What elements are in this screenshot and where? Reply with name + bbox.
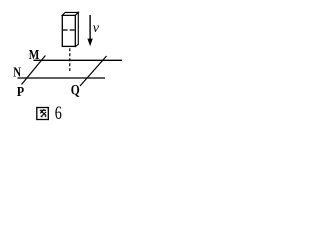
svg-text:v: v: [93, 21, 100, 36]
plane top edge (MQ back edge): [34, 59, 123, 61]
bar magnet front face: [62, 15, 75, 46]
bar magnet right side face: [75, 12, 78, 46]
svg-text:Q: Q: [71, 83, 80, 99]
caption character tu (figure) outer box: [37, 108, 49, 120]
plane right slanted edge: [80, 56, 107, 86]
svg-text:6: 6: [55, 104, 62, 124]
svg-text:N: N: [13, 66, 21, 81]
svg-text:M: M: [29, 48, 40, 63]
bar magnet top face: [62, 12, 78, 15]
plane bottom edge (NP front edge): [18, 77, 106, 79]
velocity arrow head: [87, 39, 92, 47]
magnet pole divider dashed line: [63, 29, 75, 31]
caption tu inner strokes: [40, 109, 46, 111]
velocity arrow shaft: [89, 15, 91, 40]
dashed axis line below magnet: [69, 48, 71, 71]
plane left slanted edge: [22, 56, 46, 85]
svg-text:P: P: [17, 85, 25, 100]
